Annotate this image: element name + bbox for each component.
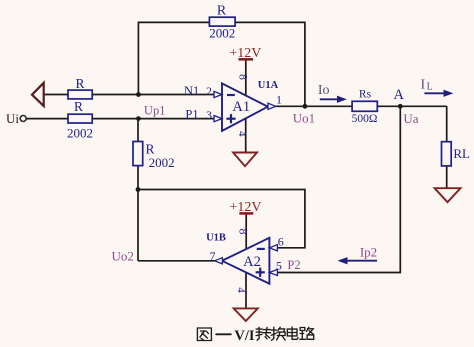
junction dot N1/feedback bbox=[136, 92, 141, 97]
junction dot Up1 bbox=[136, 116, 141, 121]
svg-text:7: 7 bbox=[210, 249, 216, 263]
caption figure title bbox=[197, 327, 313, 340]
power stub A1 top bbox=[245, 60, 247, 96]
svg-text:1: 1 bbox=[276, 92, 282, 106]
op-amp U1B plus sign bbox=[256, 268, 265, 277]
op-amp U1A pin2 arrowhead bbox=[214, 91, 222, 97]
caption glyph zhuan bbox=[256, 327, 271, 340]
svg-text:Rs: Rs bbox=[359, 88, 372, 100]
resistor R feedback (top) bbox=[209, 17, 235, 26]
svg-text:Up1: Up1 bbox=[144, 104, 166, 118]
power bar +12V A2 bbox=[239, 212, 253, 215]
op-amp U1A output arrowhead bbox=[268, 103, 276, 109]
svg-text:8: 8 bbox=[237, 74, 251, 80]
svg-text:R: R bbox=[74, 99, 83, 114]
caption glyph lu bbox=[300, 327, 314, 339]
svg-text:5: 5 bbox=[276, 258, 282, 272]
junction dot Uo1 bbox=[303, 104, 308, 109]
wire A2 feedback loop bbox=[138, 190, 305, 248]
svg-text:8: 8 bbox=[236, 229, 250, 235]
current arrow Ip2 bbox=[339, 258, 377, 264]
resistor R 2002 vertical bbox=[133, 142, 143, 166]
caption glyph yi bbox=[216, 333, 231, 335]
svg-text:A1: A1 bbox=[232, 99, 250, 115]
op-amp U1B triangle bbox=[222, 238, 269, 284]
wire Uo2 net vertical bbox=[137, 166, 139, 261]
power stub A2 top bbox=[245, 214, 247, 250]
op-amp U1B output arrowhead bbox=[215, 258, 223, 264]
svg-text:4: 4 bbox=[236, 131, 248, 137]
op-amp U1B minus sign bbox=[257, 248, 265, 250]
resistor Rs bbox=[352, 101, 377, 111]
current arrow Io bbox=[320, 96, 346, 102]
svg-text:U1A: U1A bbox=[258, 80, 279, 91]
junction dot node A bbox=[398, 104, 403, 109]
svg-text:Ua: Ua bbox=[403, 111, 418, 126]
svg-text:R: R bbox=[75, 76, 84, 91]
svg-text:2002: 2002 bbox=[209, 26, 235, 41]
ground under RL bbox=[435, 188, 461, 202]
terminal circle Ui bbox=[20, 116, 26, 122]
caption glyph tu bbox=[197, 328, 211, 341]
op-amp U1A triangle bbox=[222, 83, 268, 130]
svg-text:A: A bbox=[394, 87, 405, 103]
caption glyph dian bbox=[287, 327, 298, 339]
svg-text:P1: P1 bbox=[185, 108, 198, 122]
current arrow IL bbox=[424, 90, 452, 96]
wire R2002 branch down bbox=[137, 119, 139, 142]
svg-text:2: 2 bbox=[206, 84, 212, 98]
svg-text:2002: 2002 bbox=[149, 155, 175, 170]
power bar +12V A1 bbox=[239, 58, 254, 61]
svg-text:Uo2: Uo2 bbox=[112, 248, 134, 263]
svg-text:6: 6 bbox=[278, 235, 284, 249]
wire Ui input bbox=[26, 118, 214, 120]
svg-text:RL: RL bbox=[453, 146, 470, 161]
svg-text:P2: P2 bbox=[287, 258, 300, 272]
resistor R N1 row bbox=[68, 90, 92, 99]
svg-text:Ip2: Ip2 bbox=[360, 245, 377, 260]
wire Uo2 horizontal to A2 output bbox=[138, 260, 216, 262]
wire N1 input bbox=[44, 94, 215, 96]
svg-text:Io: Io bbox=[318, 83, 330, 98]
wire top feedback rail bbox=[138, 22, 305, 106]
svg-text:+12V: +12V bbox=[229, 46, 261, 61]
svg-text:R: R bbox=[217, 4, 227, 19]
svg-text:+12V: +12V bbox=[229, 200, 261, 215]
op-amp U1A pin3 arrowhead bbox=[214, 116, 222, 122]
caption glyph huan bbox=[271, 327, 285, 340]
wire node A down to pin5 bbox=[277, 106, 401, 272]
power stub A1 bottom to ground bbox=[245, 119, 247, 153]
op-amp U1A minus sign bbox=[227, 94, 235, 96]
svg-text:500Ω: 500Ω bbox=[352, 113, 378, 125]
svg-text:3: 3 bbox=[206, 108, 212, 122]
power stub A2 bottom to ground bbox=[245, 272, 247, 308]
junction dot Uo2 bbox=[136, 187, 141, 192]
wire RL vertical bbox=[446, 106, 448, 188]
op-amp U1B pin6 arrowhead bbox=[269, 245, 277, 251]
op-amp U1B pin5 arrowhead bbox=[269, 269, 277, 275]
wire A1 output to RL bbox=[275, 105, 447, 107]
ground under A1 bbox=[233, 153, 257, 167]
svg-text:U1B: U1B bbox=[206, 232, 226, 243]
svg-text:Uo1: Uo1 bbox=[293, 111, 315, 126]
op-amp U1A plus sign bbox=[226, 114, 235, 123]
svg-text:4: 4 bbox=[235, 287, 247, 293]
svg-text:2002: 2002 bbox=[67, 126, 93, 141]
svg-text:A2: A2 bbox=[243, 254, 261, 270]
svg-text:N1: N1 bbox=[184, 84, 199, 98]
resistor R Ui row bbox=[68, 114, 92, 123]
input port arrow at N1 bbox=[32, 83, 44, 106]
ground under A2 bbox=[234, 308, 258, 321]
resistor RL bbox=[442, 142, 452, 166]
svg-text:V/I: V/I bbox=[234, 328, 255, 344]
svg-text:Ui: Ui bbox=[6, 111, 19, 126]
